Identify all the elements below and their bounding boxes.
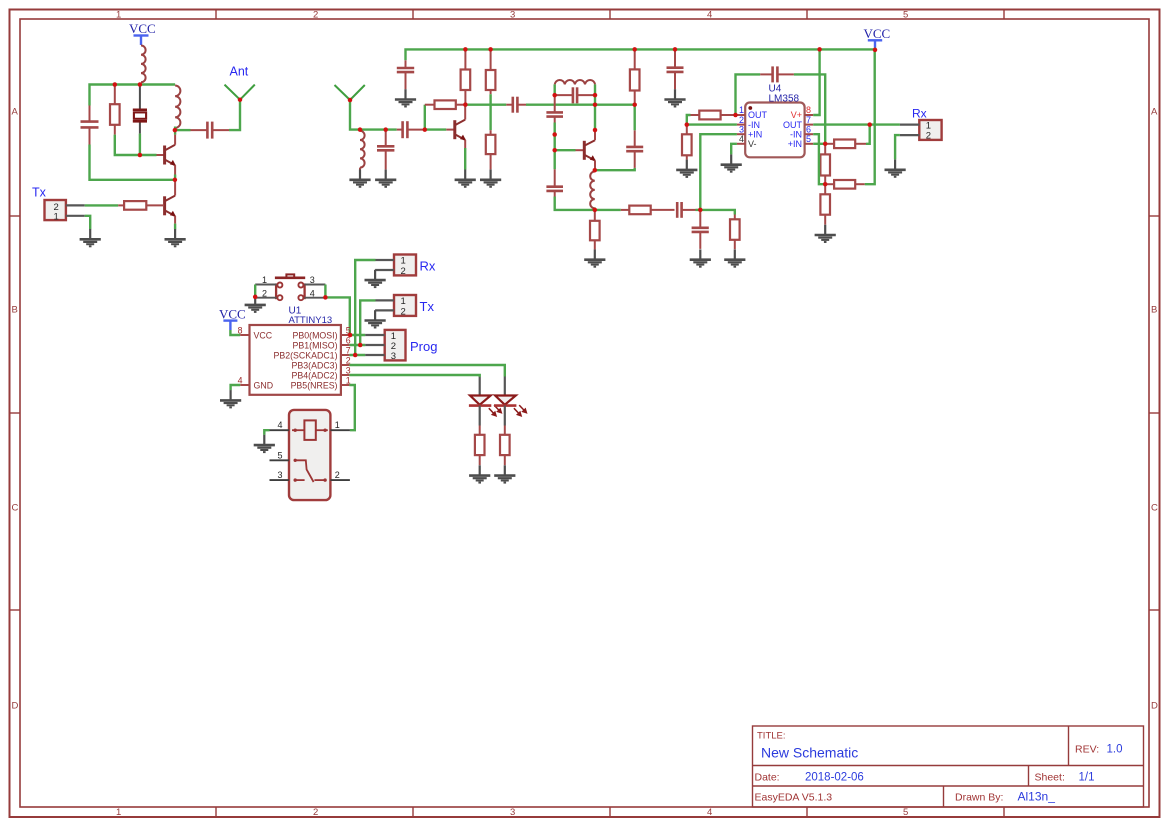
svg-text:EasyEDA V5.1.3: EasyEDA V5.1.3	[755, 792, 833, 804]
junction emitter node Q4	[593, 168, 598, 173]
lead to Q1 base	[157, 154, 165, 156]
svg-text:1.0: 1.0	[1107, 744, 1123, 756]
ground R7	[584, 249, 605, 266]
wire R5 to R6	[489, 94, 491, 130]
inductor L4 tank	[555, 80, 595, 84]
capacitor C14 rail bypass 2	[667, 49, 684, 89]
wire PB3 to LED2	[349, 365, 504, 377]
wire R1 bottom to base wire	[115, 135, 140, 155]
resistor R16 bus load	[630, 49, 640, 104]
ground Rx mcu	[365, 270, 386, 287]
wire top rail osc1	[90, 85, 176, 106]
row tick right A/B	[1149, 215, 1160, 217]
connector Rx out	[919, 120, 941, 141]
U4 pin stubs	[737, 115, 813, 144]
svg-text:3: 3	[278, 470, 283, 480]
Tx pin 1 line	[66, 215, 85, 217]
U4 pin names left	[748, 110, 768, 149]
svg-text:+IN: +IN	[788, 139, 802, 149]
D2 light arrows	[514, 405, 527, 416]
VCC rail	[406, 49, 876, 60]
wire pin8 to rail	[813, 49, 819, 115]
column tick bottom 2	[412, 807, 414, 817]
wire tank right to collector	[594, 95, 596, 129]
column tick bottom 4	[806, 807, 808, 817]
wire Rx1 vertical to pin7	[355, 260, 375, 355]
ground Rx pin2	[885, 160, 906, 177]
junction rail R16	[632, 47, 637, 52]
transistor Q1	[165, 145, 176, 166]
resistor R3 feedback	[425, 100, 466, 109]
svg-text:3: 3	[510, 807, 515, 818]
svg-text:4: 4	[310, 288, 315, 298]
wire antenna down	[350, 100, 397, 130]
wire cap to antenna	[229, 100, 240, 130]
junction base node Q3	[423, 127, 428, 132]
VCC power symbol	[134, 36, 149, 46]
svg-text:1/1: 1/1	[1079, 772, 1095, 784]
svg-text:3: 3	[391, 351, 396, 362]
junction detector node	[593, 208, 598, 213]
svg-text:1: 1	[335, 420, 340, 430]
S1 pin2 line	[255, 297, 276, 299]
junction S1 ground node	[253, 295, 258, 300]
svg-text:TITLE:: TITLE:	[757, 731, 786, 742]
wire pin1 up to C12	[736, 74, 761, 115]
op-amp U4 body	[745, 103, 804, 158]
wire VCC to pin8	[230, 330, 240, 335]
antenna Ant	[225, 85, 255, 100]
title block outline	[753, 726, 1144, 807]
wire L2 bottom	[174, 127, 176, 132]
wire emitter to node	[174, 175, 176, 180]
K1 coil	[292, 420, 328, 440]
ground R15	[815, 225, 836, 242]
wire R14 up to VCC	[865, 50, 875, 184]
junction pin7	[353, 353, 358, 358]
svg-text:2: 2	[926, 130, 931, 141]
svg-text:Prog: Prog	[410, 339, 437, 354]
Q4 collector lead	[594, 131, 596, 140]
capacitor C2 coupling	[191, 122, 230, 139]
svg-text:PB3(ADC3): PB3(ADC3)	[292, 360, 338, 370]
inductor L2	[175, 86, 180, 128]
Rx mcu pin1 line	[376, 259, 395, 261]
K1 switch	[294, 459, 327, 482]
capacitor C13 coupling 2	[506, 97, 526, 113]
junction pin5	[348, 333, 353, 338]
ground Q3 emitter	[455, 170, 476, 187]
Q4 emitter lead	[594, 161, 596, 169]
capacitor C12 feedback	[760, 66, 794, 82]
S1 pin3 line	[304, 284, 325, 286]
wire pin6 down	[813, 134, 825, 184]
resistor R15	[820, 184, 830, 224]
svg-text:ATTINY13: ATTINY13	[289, 315, 333, 326]
wire audio node right	[700, 210, 735, 215]
svg-text:+IN: +IN	[748, 129, 762, 139]
crystal X1	[139, 85, 141, 134]
svg-text:VCC: VCC	[254, 330, 273, 340]
svg-text:5: 5	[806, 134, 811, 144]
column tick top 4	[806, 10, 808, 20]
svg-text:2018-02-06: 2018-02-06	[805, 772, 864, 784]
ground Tx mcu	[365, 310, 386, 327]
svg-text:-IN: -IN	[748, 120, 760, 130]
wire base Q3	[425, 128, 447, 130]
ground Tx pin1	[80, 229, 101, 246]
svg-text:VCC: VCC	[864, 26, 891, 41]
svg-text:3: 3	[310, 275, 315, 285]
lead node to Q2 collector	[174, 180, 176, 196]
capacitor C5 rail bypass	[397, 60, 414, 89]
lead L3 to ground	[359, 168, 361, 170]
wire C7 to detector node	[555, 197, 595, 210]
ground L3	[349, 170, 370, 187]
junction emitter node	[173, 178, 178, 183]
antenna 2	[335, 85, 365, 100]
junction VCC rail corner	[873, 48, 878, 53]
svg-text:Tx: Tx	[32, 186, 47, 200]
resistor R12	[825, 140, 866, 149]
resistor R7 detector load	[590, 210, 600, 250]
inductor L3	[360, 131, 365, 168]
resistor R18	[500, 426, 510, 466]
Q2 emitter lead	[174, 216, 176, 224]
svg-text:5: 5	[903, 10, 908, 21]
junction divider a	[552, 132, 557, 137]
Tx mcu pin2 line	[375, 309, 394, 311]
junction R13 bottom	[823, 182, 828, 187]
ground K1 pin4	[254, 435, 275, 452]
column tick bottom 3	[609, 807, 611, 817]
wire C9 top to bus	[634, 105, 636, 131]
wire pin7 out	[813, 123, 900, 125]
capacitor C4 coupling	[397, 121, 425, 138]
Q3 collector lead	[464, 105, 466, 120]
junction antenna	[238, 97, 243, 102]
Rx pin2 line	[900, 134, 919, 136]
svg-text:V+: V+	[791, 110, 802, 120]
U1 pin numbers	[238, 325, 351, 385]
svg-text:1: 1	[739, 105, 744, 115]
svg-text:PB2(SCKADC1): PB2(SCKADC1)	[273, 350, 337, 360]
rev cell divider	[1068, 726, 1070, 766]
Rx pin1 line	[900, 123, 919, 125]
junction antenna 2	[348, 98, 353, 103]
resistor R2	[118, 201, 164, 210]
svg-text:2: 2	[401, 306, 406, 317]
svg-text:2: 2	[401, 266, 406, 277]
svg-text:Rx: Rx	[912, 107, 927, 121]
D1 light arrows	[489, 405, 502, 416]
wire Q1 collector to node	[174, 129, 176, 135]
wire Tx1 vertical to pin6	[360, 300, 375, 345]
junction audio node	[698, 208, 703, 213]
K1 pin numbers	[278, 420, 340, 480]
wire pin4 to ground	[731, 144, 737, 155]
svg-text:1: 1	[262, 275, 267, 285]
U4 pin numbers right	[806, 105, 811, 144]
resistor R9 audio load	[730, 215, 740, 250]
svg-text:4: 4	[707, 10, 712, 21]
svg-text:New Schematic: New Schematic	[761, 745, 858, 761]
row tick left B/C	[10, 412, 21, 414]
column tick top 1	[215, 10, 217, 20]
junction base node	[138, 153, 143, 158]
svg-text:Al13n_: Al13n_	[1018, 790, 1056, 804]
wire pin7 to Prog3	[349, 354, 365, 356]
wire emitter to C9	[595, 168, 635, 170]
ground R18	[494, 465, 515, 482]
wire tank bus	[526, 103, 635, 105]
capacitor C1	[81, 106, 99, 145]
capacitor C11 audio filter	[692, 212, 709, 249]
ground C14	[664, 89, 685, 106]
wire Q4 base	[555, 149, 576, 151]
transistor Q4	[584, 140, 596, 161]
svg-text:D: D	[1151, 701, 1158, 712]
junction bus C9	[632, 102, 637, 107]
resistor R17	[475, 426, 485, 466]
svg-text:-IN: -IN	[790, 129, 802, 139]
junction rail R5	[488, 47, 493, 52]
resistor R5 bias upper	[486, 49, 496, 94]
ground U1 GND	[220, 390, 241, 407]
wire VCC stub	[874, 48, 876, 50]
row tick right B/C	[1149, 412, 1160, 414]
transistor Q3	[455, 120, 466, 141]
wire audio node up to opamp pin3	[700, 134, 737, 210]
svg-text:1: 1	[116, 807, 121, 818]
svg-text:V-: V-	[748, 139, 757, 149]
svg-text:4: 4	[739, 134, 744, 144]
svg-text:C: C	[1151, 503, 1158, 514]
wire GND pin to ground	[231, 385, 241, 390]
svg-text:2: 2	[335, 470, 340, 480]
IC U1 body	[250, 325, 341, 395]
connector Tx mcu	[394, 295, 416, 317]
svg-text:PB5(NRES): PB5(NRES)	[291, 380, 338, 390]
column tick top 5	[1003, 10, 1005, 20]
wire Q2 emitter to ground	[174, 224, 176, 230]
wire S1 right pins joined to PB0	[325, 285, 349, 336]
wire crystal bottom	[139, 134, 141, 155]
ground C11	[690, 249, 711, 266]
transistor Q2	[165, 196, 176, 217]
capacitor C9 emitter bypass	[626, 130, 643, 168]
wire Tx pin2 to R2	[85, 204, 119, 206]
svg-text:2: 2	[262, 288, 267, 298]
U1 pin stubs	[240, 335, 349, 385]
resistor R11 to ground	[682, 125, 692, 160]
svg-text:OUT: OUT	[783, 120, 803, 130]
svg-text:5: 5	[903, 807, 908, 818]
svg-text:5: 5	[278, 450, 283, 460]
junction crystal top	[138, 82, 143, 87]
column tick top 3	[609, 10, 611, 20]
junction divider b	[552, 148, 557, 153]
row divider title/date	[753, 765, 1144, 767]
resistor R10 feedback	[691, 111, 736, 120]
wire pin6 to Prog2	[349, 344, 365, 346]
U4 pin names right	[783, 110, 803, 149]
capacitor C6 divider upper	[546, 95, 563, 122]
svg-text:4: 4	[707, 807, 712, 818]
svg-text:PB4(ADC2): PB4(ADC2)	[292, 370, 338, 380]
ground C3	[375, 170, 396, 187]
wire R12 up to out	[866, 125, 870, 144]
inductor L5 detector	[590, 172, 595, 209]
svg-text:8: 8	[806, 105, 811, 115]
capacitor C3	[377, 130, 394, 170]
svg-text:Ant: Ant	[230, 65, 249, 79]
resistor R1	[110, 85, 120, 135]
svg-text:VCC: VCC	[219, 306, 246, 321]
wire PB5 to relay pin1	[349, 385, 354, 430]
column tick top 2	[412, 10, 414, 20]
svg-text:REV:: REV:	[1075, 744, 1099, 756]
junction out wire	[867, 122, 872, 127]
junction C3 top	[383, 127, 388, 132]
Q1 collector lead	[174, 135, 176, 145]
ground R17	[469, 465, 490, 482]
resistor R4 collector load	[461, 49, 471, 104]
svg-text:A: A	[12, 107, 19, 118]
column tick bottom 5	[1003, 807, 1005, 817]
pushbutton S1 top bar	[275, 274, 305, 277]
U4 pin1 marker dot	[748, 106, 752, 110]
sheet cell divider	[1028, 766, 1030, 787]
ground R9	[724, 249, 745, 266]
LED1 cathode lead	[479, 406, 481, 426]
wire collector node to tank	[465, 103, 506, 105]
wire L4 left down	[554, 84, 556, 95]
resistor R6 bias lower	[486, 130, 496, 169]
junction S1 pin4	[323, 295, 328, 300]
lead Q4 base	[576, 149, 584, 151]
svg-text:8: 8	[238, 325, 243, 335]
svg-text:1: 1	[116, 10, 121, 21]
wire Tx pin1 to ground	[85, 216, 91, 229]
svg-text:PB0(MOSI): PB0(MOSI)	[293, 330, 338, 340]
svg-text:3: 3	[510, 10, 515, 21]
junction rail R4	[463, 47, 468, 52]
K1 pin lines	[270, 430, 350, 480]
Prog pin lines	[365, 335, 385, 355]
svg-text:2: 2	[739, 115, 744, 125]
wire Rx pin2 to ground	[895, 135, 900, 159]
connector Rx mcu	[394, 255, 416, 277]
inductor L1	[141, 46, 146, 83]
wire C12 to pin5 node	[794, 74, 825, 143]
svg-text:Tx: Tx	[420, 299, 435, 314]
svg-text:2: 2	[313, 10, 318, 21]
junction pin6	[358, 343, 363, 348]
resistor R13	[820, 144, 830, 184]
row tick left A/B	[10, 215, 21, 217]
LED D1	[469, 396, 491, 406]
resistor R14	[825, 180, 865, 189]
svg-text:2: 2	[313, 807, 318, 818]
svg-text:A: A	[1151, 107, 1158, 118]
S1 pin4 line	[304, 297, 325, 299]
row tick left C/D	[10, 609, 21, 611]
junction tank left	[552, 93, 557, 98]
svg-text:B: B	[12, 305, 18, 316]
wire to audio node	[696, 209, 701, 211]
svg-text:Date:: Date:	[755, 772, 780, 784]
svg-text:3: 3	[739, 124, 744, 134]
junction rail pin8	[817, 47, 822, 52]
ground C5	[395, 89, 416, 106]
wire emitter node	[594, 168, 596, 170]
row divider date/version	[753, 785, 1144, 787]
svg-text:C: C	[12, 503, 19, 514]
row tick right C/D	[1149, 609, 1160, 611]
column tick bottom 1	[215, 807, 217, 817]
wire R10 to pin2 node	[687, 115, 737, 125]
capacitor C10 detector series	[677, 202, 695, 218]
pushbutton S1 contacts	[276, 283, 305, 301]
wire detector out	[595, 209, 621, 211]
ground S1	[245, 295, 266, 312]
LED D2	[494, 396, 516, 406]
S1 pin labels	[262, 275, 315, 298]
resistor R8 detector series	[621, 206, 675, 215]
wire K1 pin4 to ground	[264, 430, 269, 435]
junction tank bus right	[593, 102, 598, 107]
junction pin2 node	[685, 122, 690, 127]
wire Q3 base up	[424, 105, 426, 130]
svg-text:D: D	[12, 701, 19, 712]
svg-text:GND: GND	[254, 380, 274, 390]
Rx mcu pin2 line	[375, 269, 394, 271]
junction pin1	[733, 113, 738, 118]
junction collector node Q3	[463, 102, 468, 107]
svg-text:Rx: Rx	[420, 259, 436, 274]
relay K1 body	[289, 410, 330, 500]
junction pin5 node	[823, 142, 828, 147]
connector Prog	[385, 330, 406, 362]
wire Q3 emitter to ground	[464, 148, 466, 170]
svg-text:6: 6	[806, 124, 811, 134]
wire L4 right down	[594, 84, 596, 95]
Tx mcu pin1 line	[376, 299, 395, 301]
capacitor C7 divider lower	[546, 169, 563, 196]
ground pin4	[721, 154, 742, 171]
lead Q3 base	[446, 129, 454, 131]
svg-text:Drawn By:: Drawn By:	[955, 792, 1003, 804]
wire PB4 to LED1	[349, 375, 479, 377]
wire divider mid	[554, 123, 556, 170]
Q3 emitter lead	[464, 140, 466, 148]
svg-text:7: 7	[806, 115, 811, 125]
junction tank right	[593, 93, 598, 98]
junction R1 top	[113, 82, 118, 87]
connector Tx	[45, 200, 66, 222]
ground R6	[480, 170, 501, 187]
S1 pin1 line	[255, 284, 276, 286]
VCC power symbol 3	[223, 321, 237, 330]
U1 pin names	[254, 330, 274, 390]
svg-text:1: 1	[54, 211, 59, 222]
svg-text:4: 4	[278, 420, 283, 430]
Q1 emitter lead down	[174, 165, 176, 174]
U4 pin numbers left	[739, 105, 744, 144]
base wire Q1	[140, 154, 157, 156]
junction collector node	[173, 128, 178, 133]
